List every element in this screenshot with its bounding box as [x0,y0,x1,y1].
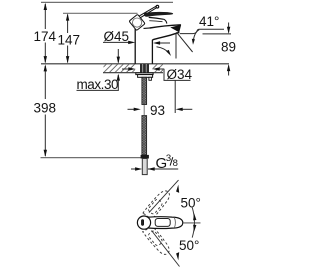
svg-text:50°: 50° [181,196,201,211]
svg-text:41°: 41° [199,14,219,29]
dashed handle rotated up 50deg [142,188,172,221]
Ø45 right-side arrow pointing left at body [158,42,170,44]
arc arrow at lower ray [176,252,179,260]
svg-text:50°: 50° [179,238,199,253]
dimension 398 arrows [44,64,47,71]
G3/8 underline [148,168,178,170]
svg-text:147: 147 [58,32,81,47]
hose end fitting [141,155,149,159]
cartridge cap lower line [149,21,162,22]
dimension 89 lower arrow [228,66,230,76]
washer under counter [136,73,153,75]
dimension 93 right arrow [181,108,192,110]
stream direction ray [177,32,193,52]
spout underside [152,32,179,40]
svg-text:398: 398 [34,101,57,116]
handle tip cap line [174,217,175,228]
angle arc center segment [192,207,194,237]
arc arrow up [193,213,196,220]
arc arrow at upper ray [176,185,179,193]
lever stick tip [156,5,159,8]
max.30 upper arrow [117,49,119,63]
faucet body right edge [151,40,153,64]
mounting nut [138,75,153,78]
handle inner rounded rect [155,219,170,227]
svg-text:3: 3 [166,153,171,164]
svg-text:Ø34: Ø34 [167,67,193,82]
cartridge cap top line [149,17,164,19]
lever stick [140,6,156,16]
Ø34 leader down (spout tip extension) [174,80,176,113]
spout tip (aerator) solid [170,25,181,33]
max.30 lower arrow [117,75,119,90]
threaded shank through counter [140,64,149,74]
mounting surface line [41,63,229,65]
dimension 147 line [67,15,69,63]
mounting stud [149,77,152,80]
G3/8 arrow pointing left at tube [148,167,155,170]
pivot slot [142,220,144,226]
upper 50deg ray [149,180,179,213]
dimension 93 left arrow [128,108,136,110]
tube left arrow pointing right [131,168,137,170]
extension line top (lever top level) [41,1,173,3]
41 degree angle arc with arrow [193,30,199,41]
spout tip extension line down [175,34,177,59]
countertop hatch left [104,64,136,72]
svg-text:174: 174 [34,29,57,44]
leader from spout tip curving up into 41deg underline [180,29,224,33]
Ø45 underline + right-pointing arrow [103,41,129,43]
faucet body left edge [134,29,136,64]
handle body top view solid [148,217,183,229]
Ø34 arrows at counter hole [122,68,130,70]
faucet body top edge [144,27,151,30]
extension line second (spout top level) [63,12,138,14]
flexible braided hose [142,77,147,104]
arc arrow down [193,225,196,232]
svg-text:93: 93 [150,103,165,118]
knob inner circle [133,18,142,27]
cap right shoulder [164,19,167,23]
lever knob (tilted square) [129,14,145,30]
svg-text:8: 8 [173,158,178,169]
lever blade [144,12,172,16]
connection tube G3/8 [142,159,147,175]
centerline right of handle [184,222,201,224]
handle pivot circle outline [137,216,150,229]
countertop bottom line [103,72,163,74]
countertop hatch right [152,64,163,72]
dimension 174 line [44,4,46,63]
Ø34 bracket [164,69,191,81]
svg-text:89: 89 [221,40,236,55]
dimension 89 upper arrow [228,23,230,33]
flow arc arrow under spout [157,47,170,54]
spout top edge [150,25,181,28]
dimension 147 arrows [66,13,69,20]
dimension 174 arrows [44,3,47,10]
89 top reference line [203,33,232,35]
hose end reference line [41,157,142,159]
dimension 398 line [44,66,46,156]
lower 50deg ray [152,231,180,267]
dashed handle rotated down 50deg [142,225,172,258]
max.30 underline [77,89,119,91]
